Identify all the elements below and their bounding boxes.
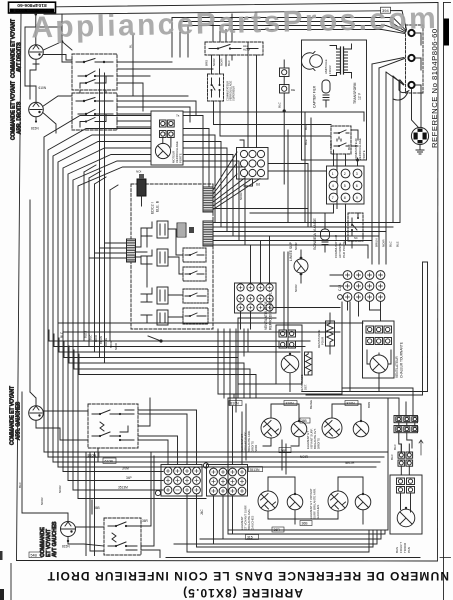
connector grid mid 4x3 [235, 283, 277, 313]
infinite switch 2 dashed box [104, 518, 141, 555]
relay K3 [141, 287, 168, 304]
border outer right tick [444, 2, 451, 4]
lamp L4 avt gauches [61, 522, 76, 549]
label box 394 [381, 7, 391, 13]
lamp L1 avt droits [29, 45, 44, 64]
cooling fan box [276, 325, 302, 384]
lamp L2 arr droits [29, 102, 44, 122]
right black bar label [444, 19, 449, 46]
connector P1 hatched [203, 187, 213, 212]
wires alim down [212, 55, 233, 74]
scan edge blob bottom-left [0, 589, 4, 600]
bas four tiroir box [390, 475, 422, 553]
lamp el1 [291, 420, 307, 437]
border bottom [17, 560, 438, 563]
wire top bus 394 [44, 11, 407, 30]
internal wires [135, 228, 183, 317]
label commande et voyant arr droits [11, 81, 23, 140]
terminal 3 [408, 82, 421, 88]
door switch DLB square 1 [280, 68, 290, 77]
connector P5 mini hatched [177, 223, 194, 237]
fan motor 2 [370, 355, 388, 373]
C12 terminal grid [338, 271, 385, 321]
wires 6d top up [240, 42, 257, 148]
wires terminals to plug [412, 33, 422, 128]
lamp el4 [355, 493, 371, 510]
element top labels [229, 401, 358, 406]
switch dashed box SW2 arr droit [72, 93, 117, 130]
capteur four sensor [313, 80, 331, 108]
oven assembly enclosure box [302, 40, 367, 160]
connector P3 dark [137, 179, 146, 196]
terminal dashed box [406, 25, 424, 93]
right vertical bundle F [372, 58, 405, 265]
door lock interconnect wires [183, 101, 364, 146]
inner bundle B [49, 69, 310, 398]
wires P1 fan up to top bundle [213, 152, 260, 210]
connector row 2 [366, 338, 374, 345]
element big 3 row2 [258, 491, 278, 511]
border right inner [437, 3, 440, 562]
wire color labels left bundle [84, 331, 119, 350]
EOC control board dashed box [89, 170, 213, 330]
wire 6d down [244, 179, 253, 186]
wire sw risers to top bundle [172, 18, 188, 58]
element big 4 row2 [328, 491, 348, 511]
wires below g2 [214, 496, 233, 544]
rotating heat fan box [363, 321, 395, 378]
wires P4 to left bundle [89, 243, 127, 258]
right 2x2 connector upper [393, 443, 413, 475]
wires below eoc to cmid [218, 312, 251, 412]
narrow wire box right [423, 262, 428, 357]
wire lamp1 top feed [35, 15, 37, 45]
relay K4 [141, 310, 168, 325]
bottom-right inner tick [440, 557, 451, 559]
small circle node above [356, 159, 359, 162]
wires near limite sup [284, 252, 288, 341]
wire riser x62 [62, 14, 72, 62]
element big 2 [322, 418, 342, 438]
scan edge blob mid-left [0, 551, 3, 560]
sw1-sw2 interconnect stubs [80, 90, 106, 93]
relay contacts right col dashed boxes [183, 248, 206, 262]
terminal 1 [408, 30, 421, 36]
verticals inside oven box [305, 112, 337, 227]
wires inside element box [246, 404, 363, 524]
wire lamp2 diag to sw2 [43, 96, 72, 106]
nested loop bottom horizontals [44, 452, 388, 499]
connector grid 6d 3x3 [237, 148, 269, 201]
wire L at x25 [25, 27, 62, 86]
grid G1 [155, 465, 202, 497]
wire BL vertical [132, 35, 134, 96]
label commande et voyant avt gauches [40, 521, 58, 557]
relay K2 [141, 249, 168, 266]
commutateur verrouillage porte dashed box [304, 123, 366, 160]
resistance det zigzag [300, 352, 312, 392]
transformer 12v [330, 44, 362, 104]
wires lamp4 [22, 392, 92, 522]
wires P2 bundle to right [213, 223, 400, 259]
sonde a viande probe [313, 204, 334, 280]
terminal 2 [408, 55, 421, 61]
fan motor 1 [281, 355, 299, 373]
wires isw1 right [138, 398, 197, 464]
relay K1 [141, 221, 168, 238]
wires isw2 to grid risers [141, 460, 154, 546]
connector row 1 [366, 326, 374, 333]
wire lamp2 top [25, 86, 36, 102]
wires above sonde grid [334, 150, 358, 166]
commutateur verrouillage superieur dashed box [208, 74, 236, 101]
right side connector 2x4 [342, 388, 423, 460]
feeders cmid top [251, 236, 270, 283]
element texts row2 [240, 488, 320, 530]
border bottom-left lower vertical [10, 564, 12, 600]
long mid wires [58, 322, 363, 324]
connector P2 hatched [203, 221, 213, 246]
door switch DLB square 2 [280, 85, 296, 94]
fan1 return wrap [238, 308, 340, 385]
moteur verrouillage porte box [151, 111, 183, 165]
connector pair b [279, 341, 287, 348]
big nested loop bundle left [44, 116, 245, 499]
elements enclosure box [228, 398, 388, 530]
power plug [411, 127, 428, 154]
curved wires below term3 [393, 90, 409, 100]
label commande et voyant arr gauches [10, 386, 22, 445]
wire lamp1 bottom down [30, 64, 36, 99]
commutateur actionne par porte [334, 213, 363, 258]
long wires bottom of fans [218, 302, 428, 409]
wire top horizontal bundle to terminal 1 [172, 18, 407, 34]
wires below G1 [187, 494, 228, 552]
infinite switch 1 dashed box [88, 404, 138, 448]
wire lamp2 bottom diag [43, 113, 56, 133]
lamp L3 arr gauches [29, 406, 44, 421]
labels near g2 [249, 467, 263, 472]
wires lamp3 [30, 200, 36, 406]
label commande et voyant avt droits [11, 19, 23, 78]
diag wire to junction [148, 336, 161, 341]
connector P4 hatched [127, 239, 136, 262]
wires isw1 down to bottom [86, 448, 104, 556]
svg-text:AppliancePartsPros.com: AppliancePartsPros.com [31, 2, 438, 45]
resistance four zigzag [317, 313, 335, 354]
lamp el2 [353, 420, 369, 437]
verticals top bundle to alim [213, 14, 232, 42]
lamp el3 [287, 493, 303, 510]
switch dashed box SW1 avt droit [72, 54, 117, 90]
oven lamp ampoule four [301, 52, 332, 75]
connector pair a [279, 330, 287, 337]
grid G2 [203, 463, 247, 496]
label 54B [29, 552, 42, 558]
wire lamp1 to sw1 [43, 42, 72, 61]
junction dot mid [159, 339, 162, 342]
sonde grid 3x3 connector [327, 166, 365, 204]
border top [56, 3, 438, 7]
element big 1 [261, 418, 281, 438]
labels 810N 610N [86, 452, 99, 457]
relay dashed box AL ALIM top center [205, 42, 263, 55]
element texts row1 [240, 428, 321, 452]
wires under sonde grid [213, 204, 346, 286]
wire dlb chain [283, 60, 285, 184]
bottom nested wires [166, 521, 420, 558]
feeders G2 and inner verticals [228, 398, 242, 534]
wires 6d to right [268, 130, 327, 227]
border outer right line [443, 3, 445, 600]
wire sw1 right outputs [117, 62, 213, 111]
top-left reference label box [9, 2, 56, 13]
wire sw2 right outputs [117, 96, 196, 142]
border left [17, 14, 22, 561]
limite sup thermostat [289, 241, 308, 292]
